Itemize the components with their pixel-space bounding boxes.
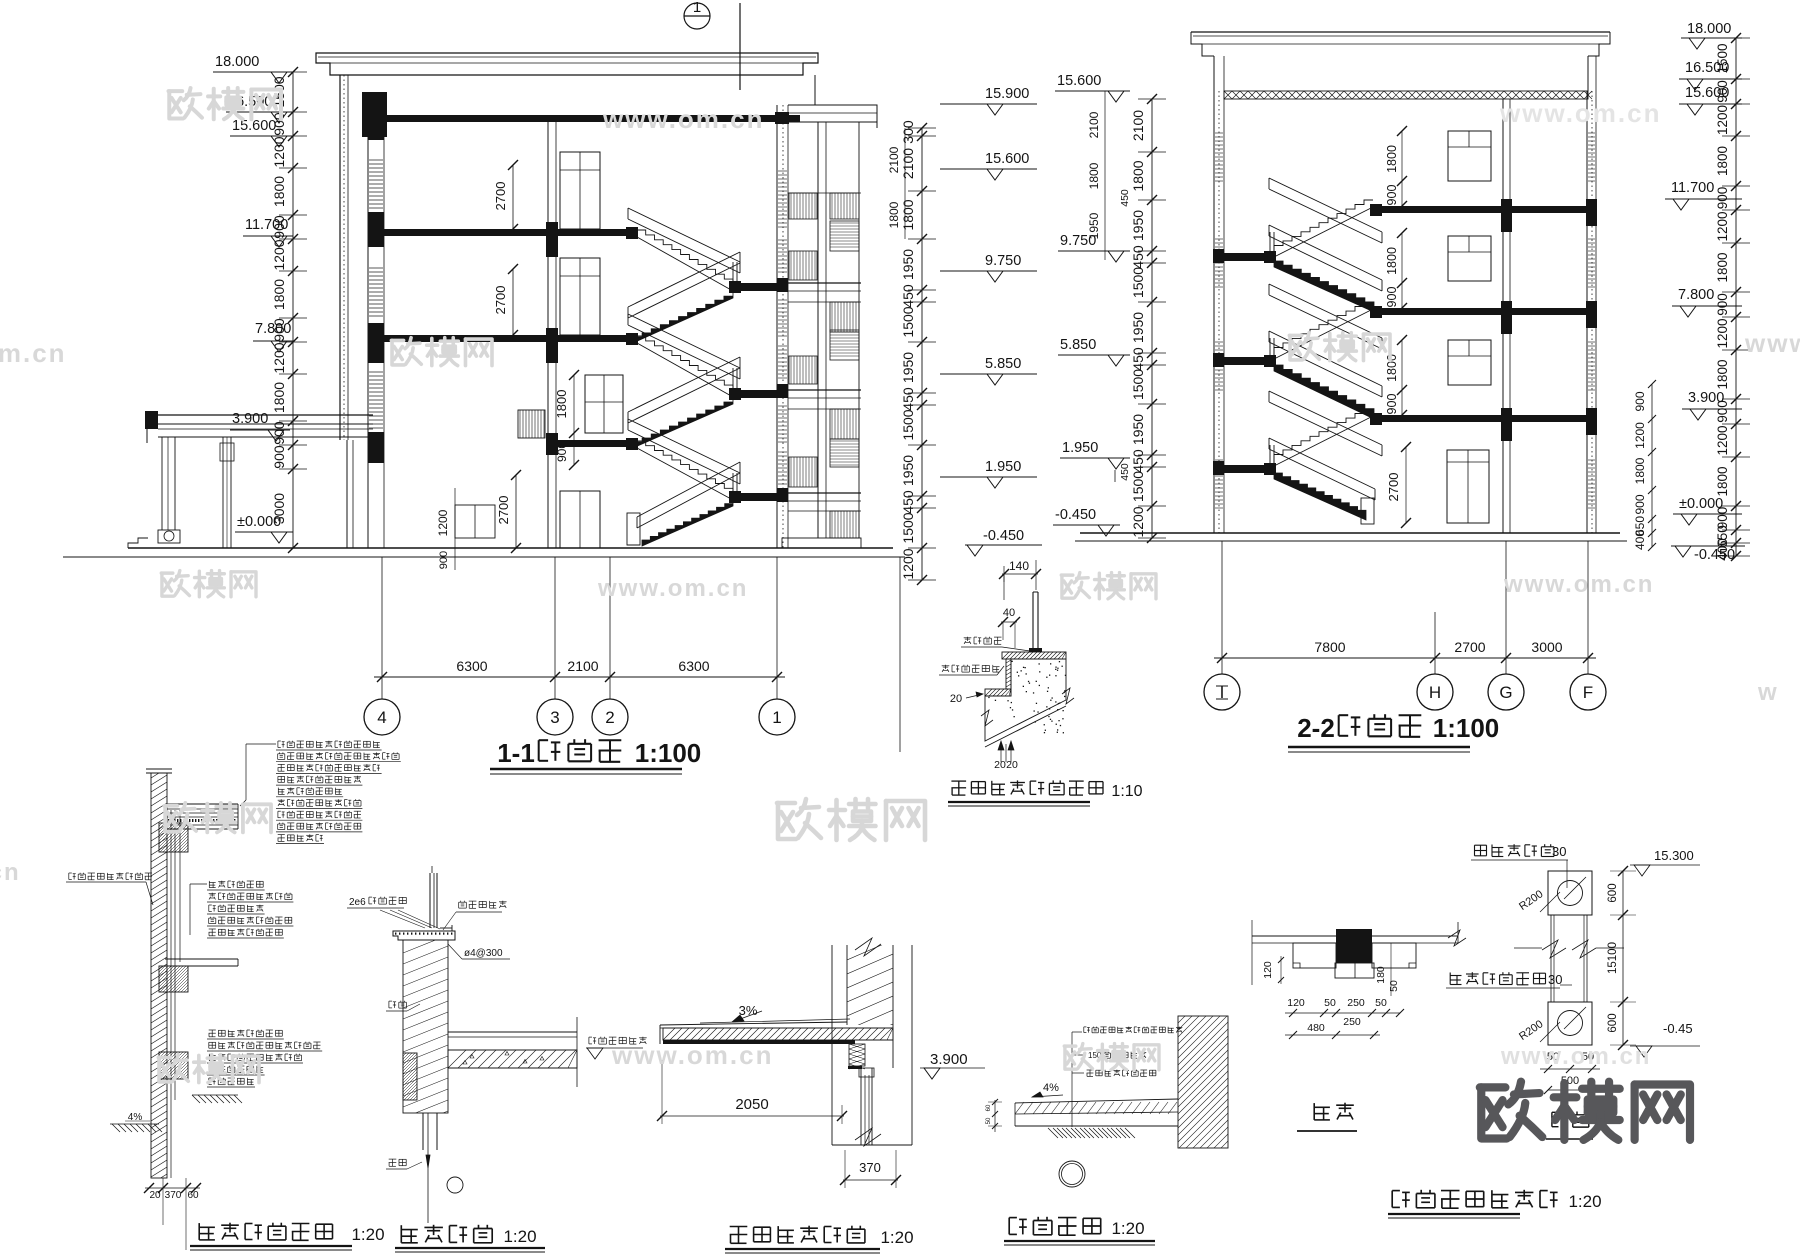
- svg-text:1200: 1200: [1633, 422, 1647, 449]
- svg-text:50: 50: [1324, 997, 1336, 1009]
- svg-text:900: 900: [271, 445, 287, 469]
- svg-text:450: 450: [900, 387, 916, 411]
- svg-text:900: 900: [555, 442, 569, 462]
- svg-text:-0.45: -0.45: [1663, 1021, 1693, 1036]
- svg-text:2700: 2700: [1454, 639, 1485, 655]
- svg-text:250: 250: [1347, 997, 1365, 1009]
- svg-text:900: 900: [271, 421, 287, 445]
- baluster post: [1032, 592, 1034, 650]
- svg-text:5.850: 5.850: [985, 356, 1021, 372]
- roof slab layers: [167, 803, 238, 805]
- svg-text:400: 400: [1633, 530, 1647, 550]
- svg-text:1800: 1800: [1385, 354, 1399, 382]
- stair landings 1-1: [731, 283, 788, 291]
- svg-text:6300: 6300: [456, 658, 487, 674]
- svg-text:450: 450: [1130, 347, 1146, 371]
- svg-text:1500: 1500: [900, 409, 916, 440]
- label finished sill plate: [459, 901, 467, 903]
- title wall detail: [198, 1223, 200, 1240]
- wall body detail: [151, 773, 167, 1178]
- ground floor door 1-1: [560, 491, 600, 548]
- svg-text:1800: 1800: [1715, 252, 1730, 282]
- svg-text:2100: 2100: [567, 658, 598, 674]
- svg-text:50: 50: [1388, 980, 1400, 992]
- svg-text:900: 900: [1385, 185, 1399, 206]
- concrete stair body: [985, 659, 1066, 741]
- ground hatch: [192, 1095, 200, 1103]
- light watermarks: [169, 89, 183, 93]
- svg-text:1800: 1800: [554, 390, 569, 419]
- title canopy detail: [730, 1226, 748, 1228]
- svg-text:4%: 4%: [1043, 1082, 1059, 1094]
- svg-text:1500: 1500: [900, 512, 916, 543]
- svg-text:1800: 1800: [1385, 145, 1399, 173]
- svg-text:www.om.cn: www.om.cn: [602, 104, 765, 134]
- svg-text:900: 900: [1715, 187, 1730, 210]
- wall below canopy: [860, 1068, 862, 1145]
- floor slabs 2-2: [1378, 206, 1588, 213]
- svg-text:40: 40: [1003, 607, 1015, 619]
- title stair tread detail: [951, 780, 966, 782]
- svg-text:20: 20: [950, 693, 962, 705]
- svg-text:1800: 1800: [1087, 162, 1101, 189]
- svg-text:7.800: 7.800: [1678, 287, 1714, 303]
- svg-text:1200: 1200: [271, 239, 287, 270]
- label plaster joint: [1449, 973, 1451, 985]
- dim 2050: [660, 1115, 844, 1117]
- svg-text:1800: 1800: [271, 176, 287, 207]
- watermark big OMW: [1480, 1083, 1506, 1091]
- floor slabs 1-1: [368, 115, 800, 122]
- svg-text:-0.450: -0.450: [1055, 507, 1096, 523]
- svg-text:450: 450: [1130, 245, 1146, 269]
- svg-text:50: 50: [986, 1117, 992, 1124]
- svg-text:30: 30: [1552, 844, 1566, 859]
- svg-text:1:20: 1:20: [1568, 1192, 1601, 1211]
- title window sill detail: [400, 1225, 402, 1243]
- svg-text:7.800: 7.800: [255, 321, 291, 337]
- svg-text:4: 4: [377, 708, 386, 727]
- svg-text:15.600: 15.600: [1685, 85, 1729, 101]
- detail callout bubble 1: [684, 3, 710, 29]
- svg-text:3.900: 3.900: [930, 1051, 968, 1068]
- svg-text:1200: 1200: [1715, 318, 1730, 348]
- svg-text:15.600: 15.600: [1057, 73, 1101, 89]
- svg-text:11.700: 11.700: [1671, 180, 1714, 196]
- svg-text:20: 20: [994, 759, 1006, 771]
- interior doors 1-1: [560, 152, 600, 229]
- stair landings 2-2: [1224, 253, 1274, 261]
- grid 4 cut wall with windows 1-1: [367, 92, 369, 548]
- label floor structural elev: [589, 1036, 592, 1038]
- svg-text:2: 2: [605, 708, 614, 727]
- canopy detail wall: [831, 945, 833, 1145]
- svg-text:1800: 1800: [1715, 359, 1730, 389]
- svg-text:900: 900: [1633, 391, 1647, 411]
- svg-text:2e6: 2e6: [349, 897, 366, 908]
- parapet beam block: [159, 823, 188, 852]
- interior windows 2-2: [1448, 131, 1491, 181]
- svg-text:1200: 1200: [436, 509, 450, 536]
- corridor roof overhang 1-1: [788, 105, 877, 122]
- svg-text:2700: 2700: [1386, 473, 1401, 502]
- svg-text:50: 50: [1375, 997, 1387, 1009]
- plan dims: [1285, 1012, 1400, 1014]
- svg-text:-0.450: -0.450: [983, 528, 1024, 544]
- svg-text:16.500: 16.500: [1685, 60, 1729, 76]
- dim 370: [843, 1179, 898, 1181]
- svg-text:2700: 2700: [496, 496, 511, 525]
- label protruding base: [1475, 844, 1487, 846]
- right dimension chain 1-1: [921, 128, 923, 580]
- svg-text:600: 600: [1607, 883, 1619, 902]
- svg-text:900: 900: [1633, 494, 1647, 514]
- svg-text:1:20: 1:20: [351, 1225, 384, 1244]
- center wall grid G 2-2: [1502, 99, 1504, 533]
- svg-text:60: 60: [986, 1104, 992, 1111]
- svg-text:1950: 1950: [900, 455, 916, 486]
- svg-text:3000: 3000: [1531, 639, 1562, 655]
- svg-text:www.om.cn: www.om.cn: [611, 1040, 774, 1070]
- svg-text:450: 450: [1119, 463, 1131, 481]
- svg-text:1500: 1500: [900, 306, 916, 337]
- svg-text:1200: 1200: [271, 342, 287, 373]
- svg-text:4%: 4%: [128, 1112, 143, 1123]
- corridor balconies 1-1: [817, 122, 819, 538]
- left wall 2-2: [1213, 91, 1215, 533]
- svg-text:1800: 1800: [887, 201, 901, 228]
- svg-text:1200: 1200: [1715, 211, 1730, 241]
- apron detail wall: [1178, 1016, 1228, 1148]
- svg-text:www.: www.: [1744, 328, 1800, 358]
- svg-text:1:20: 1:20: [503, 1227, 536, 1246]
- svg-text:om.cn: om.cn: [0, 338, 67, 368]
- svg-text:18.000: 18.000: [215, 54, 259, 70]
- svg-text:5.850: 5.850: [1060, 337, 1096, 353]
- canopy columns: [161, 437, 163, 530]
- svg-text:370: 370: [859, 1160, 881, 1175]
- svg-text:1500: 1500: [1130, 369, 1146, 400]
- canopy slab: [660, 1022, 847, 1025]
- svg-text:1200: 1200: [1715, 105, 1730, 135]
- svg-text:450: 450: [1130, 449, 1146, 473]
- roof cornice 1-1: [316, 53, 818, 75]
- svg-text:1.950: 1.950: [985, 459, 1021, 475]
- svg-text:1800: 1800: [1130, 160, 1146, 191]
- svg-text:1800: 1800: [1715, 466, 1730, 496]
- svg-text:120: 120: [1287, 997, 1305, 1009]
- svg-text:1:100: 1:100: [1433, 713, 1500, 743]
- svg-text:15100: 15100: [1607, 942, 1619, 974]
- note stack B: [209, 1029, 216, 1031]
- svg-text:140: 140: [1009, 559, 1029, 573]
- stair tread detail: [1002, 573, 1038, 575]
- elevation title: [1546, 1138, 1593, 1140]
- svg-text:1800: 1800: [900, 199, 916, 230]
- right dimension chain 2-2: [1735, 38, 1737, 556]
- svg-text:1950: 1950: [900, 249, 916, 280]
- svg-text:9.750: 9.750: [1060, 233, 1096, 249]
- plan title: [1313, 1103, 1315, 1120]
- svg-text:3.900: 3.900: [1688, 390, 1724, 406]
- svg-text:1800: 1800: [271, 279, 287, 310]
- svg-text:480: 480: [1307, 1022, 1325, 1034]
- svg-text:2100: 2100: [1087, 111, 1101, 138]
- svg-text:300: 300: [900, 120, 916, 144]
- apron circle: [1059, 1161, 1085, 1187]
- svg-text:2100: 2100: [900, 148, 916, 179]
- svg-text:G: G: [1499, 683, 1512, 702]
- cross-hatch block: [849, 1044, 865, 1066]
- lower beam block: [159, 1052, 188, 1079]
- svg-text:1800: 1800: [271, 382, 287, 413]
- svg-text:3.900: 3.900: [232, 411, 268, 427]
- pole: [1550, 915, 1552, 1002]
- svg-text:250: 250: [1343, 1016, 1361, 1028]
- note stack roof layers: [278, 740, 281, 742]
- svg-text:1: 1: [693, 0, 701, 16]
- svg-text:2-2: 2-2: [1297, 713, 1335, 743]
- svg-text:www.om.cn: www.om.cn: [1503, 571, 1654, 598]
- svg-text:900: 900: [1385, 394, 1399, 415]
- svg-text:1950: 1950: [1130, 414, 1146, 445]
- svg-text:1800: 1800: [1385, 247, 1399, 275]
- svg-text:9.750: 9.750: [985, 253, 1021, 269]
- svg-text:600: 600: [1607, 1013, 1619, 1032]
- decoration elevation top block: [1548, 871, 1592, 915]
- svg-text:1:10: 1:10: [1111, 783, 1142, 800]
- svg-text:1: 1: [772, 708, 781, 727]
- svg-text:F: F: [1583, 683, 1593, 702]
- svg-text:180: 180: [1375, 966, 1387, 984]
- svg-text:1800: 1800: [1715, 146, 1730, 176]
- right wall 2-2: [1586, 91, 1588, 533]
- svg-text:900: 900: [1385, 287, 1399, 308]
- svg-text:450: 450: [1119, 189, 1131, 207]
- svg-text:1.950: 1.950: [1062, 440, 1098, 456]
- landing balustrade 3.9: [518, 410, 545, 438]
- right cut wall 1-1: [776, 105, 778, 548]
- svg-text:1500: 1500: [1130, 267, 1146, 298]
- label anti-slip strip: [964, 637, 972, 639]
- svg-text:15.900: 15.900: [985, 86, 1029, 102]
- svg-text:7800: 7800: [1314, 639, 1345, 655]
- svg-text:2100: 2100: [1130, 110, 1146, 141]
- floor slab: [448, 1031, 577, 1033]
- svg-text:1:20: 1:20: [880, 1228, 913, 1247]
- svg-text:1950: 1950: [1130, 210, 1146, 241]
- svg-text:20: 20: [1006, 759, 1018, 771]
- tread terrazzo finish: [1002, 652, 1066, 659]
- left dimension chains 2-2: [1151, 99, 1153, 538]
- svg-text:±0.000: ±0.000: [237, 514, 281, 530]
- svg-text:1950: 1950: [1130, 312, 1146, 343]
- svg-text:370: 370: [165, 1190, 182, 1201]
- decoration plan view: [1252, 935, 1458, 937]
- svg-text:18.000: 18.000: [1687, 21, 1731, 37]
- svg-text:.cn: .cn: [0, 859, 21, 886]
- ground line 2-2: [1080, 532, 1620, 534]
- svg-text:15.600: 15.600: [985, 151, 1029, 167]
- svg-text:3: 3: [550, 708, 559, 727]
- svg-text:15.300: 15.300: [1654, 848, 1694, 863]
- svg-text:1200: 1200: [900, 548, 916, 579]
- svg-text:1:20: 1:20: [1111, 1219, 1144, 1238]
- svg-text:1500: 1500: [1130, 471, 1146, 502]
- svg-text:1800: 1800: [1633, 457, 1647, 484]
- svg-text:2700: 2700: [493, 286, 508, 315]
- balcony railings 1-1: [789, 193, 817, 219]
- apron notes: [1071, 1032, 1073, 1127]
- svg-text:±0.000: ±0.000: [1679, 496, 1723, 512]
- svg-text:11.700: 11.700: [245, 217, 288, 233]
- inner dim chain right 2-2: [1651, 384, 1653, 547]
- entrance canopy 3.9: [147, 414, 373, 416]
- label terrazzo slab: [942, 665, 950, 667]
- svg-text:15.600: 15.600: [232, 118, 276, 134]
- decoration elevation bottom block: [1548, 1002, 1592, 1045]
- section 2-2 roof cornice: [1191, 31, 1610, 33]
- svg-text:1200: 1200: [271, 136, 287, 167]
- svg-text:2700: 2700: [493, 182, 508, 211]
- svg-text:1950: 1950: [900, 352, 916, 383]
- main decoration title: [1392, 1190, 1400, 1192]
- interior wall grid 3: [547, 122, 549, 548]
- staircase 2-2: [1274, 200, 1373, 250]
- sill wall hatched: [403, 940, 448, 1113]
- grid bubbles section 1-1: [381, 557, 383, 699]
- sill plate: [393, 931, 455, 940]
- svg-text:1200: 1200: [1130, 506, 1146, 537]
- svg-text:120: 120: [1262, 961, 1274, 979]
- apron slab: [1015, 1099, 1178, 1103]
- label insulation: [69, 872, 72, 874]
- svg-text:H: H: [1429, 683, 1441, 702]
- window sill detail: [429, 873, 431, 928]
- elevation view title glyphs: [1552, 1111, 1559, 1113]
- grid bubbles 2-2: [1221, 541, 1223, 674]
- roof slab hatched 2-2: [1224, 91, 1588, 99]
- lower window frame: [422, 1113, 424, 1150]
- svg-text:2100: 2100: [887, 146, 901, 173]
- left dimension chain 1-1: [292, 72, 294, 548]
- svg-text:1:100: 1:100: [635, 738, 702, 768]
- left facade wall 1-1: [339, 75, 341, 440]
- svg-text:60: 60: [187, 1190, 199, 1201]
- label drip: [389, 1000, 392, 1002]
- right dims decoration: [1622, 871, 1624, 1045]
- svg-text:900: 900: [1715, 293, 1730, 316]
- svg-text:ø4@300: ø4@300: [464, 948, 503, 959]
- svg-text:450: 450: [900, 490, 916, 514]
- mid floor slab: [165, 958, 238, 960]
- svg-text:1200: 1200: [1715, 425, 1730, 455]
- svg-text:www.om.cn: www.om.cn: [597, 575, 748, 602]
- svg-text:1-1: 1-1: [497, 738, 535, 768]
- title apron detail: [1009, 1217, 1017, 1219]
- ground line 1-1: [128, 547, 893, 549]
- svg-text:20: 20: [149, 1190, 161, 1201]
- staircase 1-1: [637, 230, 733, 284]
- svg-text:6300: 6300: [678, 658, 709, 674]
- note stack A: [208, 881, 210, 888]
- svg-text:w: w: [1757, 679, 1779, 706]
- svg-text:www.om.cn: www.om.cn: [1500, 1043, 1651, 1070]
- svg-text:-0.450: -0.450: [1694, 547, 1735, 563]
- svg-text:450: 450: [900, 284, 916, 308]
- svg-text:www.om.cn: www.om.cn: [1499, 98, 1662, 128]
- svg-text:2050: 2050: [735, 1096, 768, 1113]
- svg-text:900: 900: [438, 551, 450, 569]
